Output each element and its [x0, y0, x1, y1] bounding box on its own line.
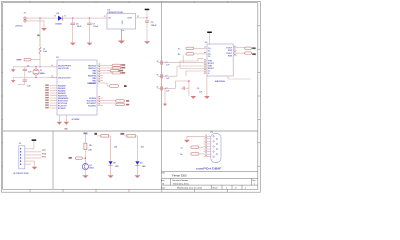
- svg-text:C5: C5: [151, 22, 154, 24]
- svg-text:1uF: 1uF: [199, 92, 203, 94]
- svg-text:Tx: Tx: [180, 147, 183, 149]
- svg-text:C2: C2: [27, 65, 29, 67]
- svg-text:Ferrari 3200: Ferrari 3200: [172, 174, 187, 178]
- svg-text:Title: Title: [161, 172, 166, 175]
- svg-text:VPP: VPP: [42, 150, 47, 152]
- svg-text:.33uF: .33uF: [76, 26, 82, 28]
- svg-text:LED: LED: [115, 166, 119, 168]
- svg-text:C9: C9: [197, 88, 199, 90]
- svg-text:1.2K: 1.2K: [88, 149, 93, 151]
- svg-text:P1: P1: [211, 132, 213, 134]
- svg-text:R8: R8: [89, 145, 91, 147]
- svg-text:1: 1: [245, 187, 246, 189]
- svg-text:U2: U2: [108, 9, 111, 11]
- svg-text:C2-: C2-: [208, 56, 211, 58]
- svg-text:1: 1: [226, 187, 227, 189]
- svg-text:GND: GND: [121, 20, 123, 25]
- svg-text:OSC1/CLKIN: OSC1/CLKIN: [58, 68, 69, 70]
- svg-text:1uF: 1uF: [166, 90, 170, 92]
- svg-text:Document Number: Document Number: [172, 179, 188, 182]
- svg-text:T2OUT: T2OUT: [226, 53, 233, 55]
- svg-text:LM7805C/TO220: LM7805C/TO220: [108, 12, 124, 14]
- svg-text:OUT: OUT: [127, 18, 132, 20]
- svg-text:uP16F88: uP16F88: [72, 119, 80, 121]
- svg-text:Tx: Tx: [178, 48, 181, 50]
- svg-text:150: 150: [114, 146, 117, 148]
- svg-text:1N4007: 1N4007: [55, 22, 63, 25]
- svg-text:MAX232A: MAX232A: [215, 80, 226, 83]
- svg-text:D2: D2: [113, 162, 115, 164]
- svg-text:Y1: Y1: [40, 70, 43, 72]
- svg-text:LED: LED: [142, 166, 146, 168]
- svg-text:VREF: VREF: [16, 60, 22, 62]
- svg-text:Size: Size: [161, 180, 165, 182]
- svg-text:3904: 3904: [89, 167, 94, 170]
- svg-text:C7: C7: [92, 23, 95, 25]
- svg-text:Rx: Rx: [180, 154, 183, 156]
- svg-text:Date:: Date:: [161, 186, 166, 189]
- svg-text:1uH: 1uH: [43, 51, 47, 53]
- svg-text:comPOrt DB9F: comPOrt DB9F: [196, 167, 222, 170]
- svg-text:D3: D3: [140, 162, 142, 164]
- svg-text:OSC2/CLKOUT: OSC2/CLKOUT: [58, 77, 71, 79]
- svg-text:U1: U1: [56, 57, 60, 59]
- svg-text:Telemetria 4 bits: Telemetria 4 bits: [173, 182, 190, 185]
- svg-text:1uF: 1uF: [166, 65, 170, 67]
- svg-text:1uF: 1uF: [166, 78, 170, 80]
- svg-text:.1uF: .1uF: [27, 86, 32, 88]
- svg-text:RC3/SCK: RC3/SCK: [58, 108, 66, 110]
- svg-text:Rev: Rev: [252, 180, 255, 182]
- svg-text:Q1: Q1: [89, 165, 92, 167]
- svg-text:PGD: PGD: [42, 153, 47, 155]
- svg-text:RA6/OSC2: RA6/OSC2: [87, 82, 96, 85]
- svg-text:J3: J3: [19, 143, 22, 145]
- svg-text:.1uF: .1uF: [28, 71, 33, 73]
- svg-text:8MHz: 8MHz: [40, 73, 45, 75]
- svg-text:T1OUT: T1OUT: [226, 47, 233, 49]
- svg-text:Sheet: Sheet: [213, 186, 218, 189]
- svg-text:D5: D5: [57, 13, 60, 15]
- svg-text:IN CIRCUIT PGM: IN CIRCUIT PGM: [13, 173, 28, 175]
- svg-text:150: 150: [141, 146, 144, 148]
- svg-text:Wednesday, June 22, 2011: Wednesday, June 22, 2011: [177, 188, 203, 190]
- svg-text:RC5/SDO: RC5/SDO: [88, 105, 96, 107]
- svg-text:J1: J1: [24, 12, 27, 14]
- svg-text:100uF: 100uF: [151, 25, 158, 27]
- svg-text:+9V DC: +9V DC: [15, 25, 23, 27]
- svg-text:.01uF: .01uF: [93, 26, 99, 28]
- svg-text:Rx: Rx: [178, 54, 181, 56]
- svg-text:PGC: PGC: [42, 156, 47, 158]
- svg-text:C6: C6: [76, 23, 79, 25]
